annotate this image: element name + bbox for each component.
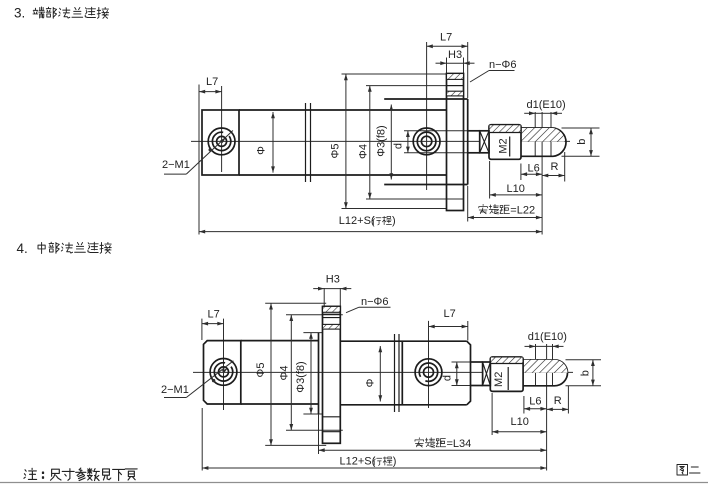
- svg-text:Φ3(f8): Φ3(f8): [295, 361, 307, 392]
- svg-text:=L22: =L22: [510, 205, 535, 217]
- svg-text:M2: M2: [498, 138, 510, 153]
- svg-text:): ): [392, 215, 396, 227]
- svg-text:H3: H3: [448, 49, 462, 61]
- svg-text:Φ4: Φ4: [357, 144, 369, 159]
- svg-text:L6: L6: [529, 396, 541, 408]
- svg-text:n−Φ6: n−Φ6: [489, 59, 516, 71]
- svg-text:2−M1: 2−M1: [162, 159, 190, 171]
- svg-text:d1(E10): d1(E10): [528, 331, 567, 343]
- svg-text:=L34: =L34: [447, 438, 472, 450]
- svg-text:b: b: [576, 139, 588, 145]
- svg-text:L7: L7: [444, 308, 456, 320]
- svg-text:L7: L7: [440, 32, 452, 44]
- svg-text:): ): [393, 456, 397, 468]
- svg-text:L6: L6: [528, 163, 540, 175]
- svg-text:Φ: Φ: [256, 146, 268, 155]
- svg-text:Φ: Φ: [365, 378, 377, 387]
- svg-text:d1(E10): d1(E10): [527, 99, 566, 111]
- svg-text:Φ3(f8): Φ3(f8): [375, 125, 387, 156]
- svg-text:2−M1: 2−M1: [161, 384, 189, 396]
- svg-text:R: R: [551, 161, 559, 173]
- svg-text:d: d: [393, 143, 405, 149]
- svg-text:4.: 4.: [17, 241, 28, 256]
- svg-text:R: R: [554, 395, 562, 407]
- svg-text:L12+S(: L12+S(: [339, 215, 375, 227]
- svg-text:L10: L10: [511, 416, 529, 428]
- svg-text:Φ5: Φ5: [255, 363, 267, 378]
- svg-text:H3: H3: [326, 273, 340, 285]
- svg-text:Φ5: Φ5: [329, 144, 341, 159]
- svg-text:M2: M2: [493, 372, 505, 387]
- svg-text:b: b: [580, 370, 592, 376]
- svg-text:3.: 3.: [14, 6, 25, 21]
- svg-text:L7: L7: [208, 308, 220, 320]
- svg-text:L12+S(: L12+S(: [340, 456, 376, 468]
- svg-text:d: d: [441, 375, 453, 381]
- svg-text:n−Φ6: n−Φ6: [361, 296, 388, 308]
- svg-text:L10: L10: [507, 183, 525, 195]
- svg-text:L7: L7: [206, 76, 218, 88]
- svg-text:Φ4: Φ4: [279, 366, 291, 381]
